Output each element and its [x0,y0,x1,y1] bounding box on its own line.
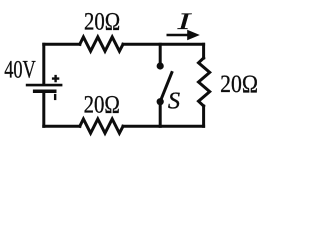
wire left vertical upper [42,44,45,83]
wire right vertical lower lead [202,106,205,126]
wire top-left segment [44,43,80,46]
svg-text:20Ω: 20Ω [84,9,120,36]
svg-text:20Ω: 20Ω [220,71,258,98]
svg-text:I: I [176,9,192,35]
switch S blade [160,73,172,102]
wire bottom-right segment [123,125,204,128]
wire right vertical upper lead [202,44,205,58]
svg-text:S: S [168,88,180,115]
current arrow I [167,30,200,40]
svg-text:20Ω: 20Ω [84,91,120,118]
battery minus tick [54,94,56,100]
resistor R2 20Ω right zigzag [199,58,210,106]
resistor R1 20Ω top zigzag [80,37,123,51]
battery V1 top plate (+) [26,84,63,87]
resistor R3 20Ω bottom zigzag [80,119,123,133]
wire left vertical lower [42,94,45,127]
node switch terminal bottom dot [157,98,164,105]
battery V1 bottom plate (−) [33,89,57,93]
wire switch branch top [159,44,162,66]
battery plus sign [52,75,59,82]
wire switch branch bottom [159,102,162,127]
node switch terminal top dot [157,62,164,69]
wire top-right segment [123,43,204,46]
wire bottom-left segment [44,125,80,128]
svg-text:40V: 40V [4,57,36,84]
